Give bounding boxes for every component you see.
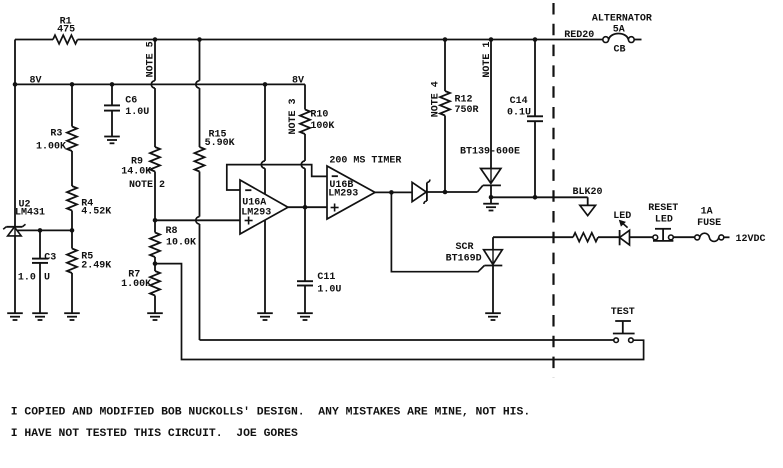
svg-text:1.0U: 1.0U — [317, 284, 341, 295]
svg-text:750R: 750R — [455, 105, 479, 116]
svg-text:BLK20: BLK20 — [573, 187, 603, 198]
svg-text:LM293: LM293 — [328, 189, 358, 200]
svg-text:4.52K: 4.52K — [81, 207, 111, 218]
svg-text:5.90K: 5.90K — [205, 138, 235, 149]
svg-text:1A: 1A — [701, 206, 713, 217]
svg-text:NOTE 4: NOTE 4 — [430, 81, 441, 117]
svg-text:LM431: LM431 — [15, 208, 45, 219]
svg-text:C6: C6 — [125, 96, 137, 107]
svg-text:TEST: TEST — [611, 307, 635, 318]
svg-text:1.00K: 1.00K — [36, 141, 66, 152]
svg-text:12VDC: 12VDC — [736, 234, 766, 245]
svg-text:I HAVE NOT TESTED THIS CIRCUIT: I HAVE NOT TESTED THIS CIRCUIT. JOE GORE… — [11, 428, 298, 440]
svg-text:8V: 8V — [30, 75, 42, 86]
svg-text:1.0U: 1.0U — [125, 107, 149, 118]
svg-text:U: U — [44, 273, 50, 284]
svg-text:R3: R3 — [50, 128, 62, 139]
svg-text:100K: 100K — [310, 121, 334, 132]
svg-text:R8: R8 — [166, 226, 178, 237]
svg-text:LED: LED — [613, 211, 631, 222]
svg-text:NOTE 2: NOTE 2 — [129, 180, 165, 191]
svg-text:10.0K: 10.0K — [166, 237, 196, 248]
svg-text:BT169D: BT169D — [446, 254, 482, 265]
svg-text:BT139-600E: BT139-600E — [460, 146, 520, 157]
svg-text:C14: C14 — [510, 96, 528, 107]
svg-text:14.0K: 14.0K — [121, 167, 151, 178]
svg-text:475: 475 — [57, 25, 75, 36]
svg-text:1.0: 1.0 — [18, 273, 36, 284]
svg-text:2.49K: 2.49K — [81, 261, 111, 272]
svg-text:0.1U: 0.1U — [507, 107, 531, 118]
svg-text:NOTE 1: NOTE 1 — [482, 42, 493, 78]
svg-text:200 MS TIMER: 200 MS TIMER — [329, 156, 401, 167]
svg-text:LED: LED — [655, 214, 673, 225]
svg-text:SCR: SCR — [456, 242, 474, 253]
svg-text:C11: C11 — [317, 272, 335, 283]
svg-text:R10: R10 — [310, 109, 328, 120]
svg-text:RED20: RED20 — [564, 30, 594, 41]
svg-text:CB: CB — [614, 45, 626, 56]
svg-text:RESET: RESET — [648, 203, 678, 214]
svg-text:ALTERNATOR: ALTERNATOR — [592, 14, 652, 25]
svg-text:LM293: LM293 — [241, 208, 271, 219]
svg-text:NOTE 5: NOTE 5 — [145, 41, 156, 77]
svg-text:I COPIED AND MODIFIED BOB NUCK: I COPIED AND MODIFIED BOB NUCKOLLS' DESI… — [11, 406, 531, 418]
svg-text:NOTE 3: NOTE 3 — [288, 98, 299, 134]
svg-text:5A: 5A — [613, 25, 625, 36]
svg-text:FUSE: FUSE — [697, 218, 721, 229]
svg-text:8V: 8V — [292, 75, 304, 86]
svg-text:1.00K: 1.00K — [121, 279, 151, 290]
svg-text:C3: C3 — [44, 253, 56, 264]
